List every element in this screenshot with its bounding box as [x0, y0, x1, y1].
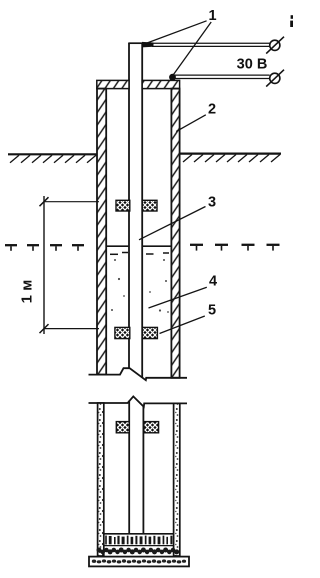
- leader line 1 to rod top: [147, 21, 207, 43]
- junction dot on casing cap: [169, 74, 176, 81]
- lower electrode block right: [142, 327, 157, 338]
- water level line inside casing: [106, 245, 171, 247]
- wire 1 (top wire to inner rod): [152, 43, 270, 46]
- water speckle dots: [111, 259, 169, 313]
- lower casing wall right (stippled): [174, 403, 180, 556]
- water level small dashes: [110, 253, 169, 255]
- inner rod pipe lower section: [129, 401, 143, 534]
- leader line 5 to lower electrode: [160, 316, 205, 334]
- upper electrode block right: [142, 200, 157, 211]
- sediment chain band: [97, 548, 180, 555]
- ground hatching left: [10, 155, 96, 163]
- leader line 2 to casing: [176, 115, 206, 132]
- svg-text:2: 2: [208, 102, 216, 118]
- lower section electrode block left: [116, 422, 129, 433]
- dimension extension line bottom: [44, 328, 99, 330]
- water table dashed line left: [5, 244, 84, 246]
- leader line 4 to water: [149, 287, 207, 308]
- bottom plate gravel chain: [92, 559, 186, 563]
- terminal circle bottom: [266, 70, 284, 87]
- casing cap right part: [142, 80, 179, 88]
- gravel filter top line: [104, 533, 174, 535]
- break line lower section top: [89, 396, 188, 406]
- gravel band bottom line: [104, 545, 173, 547]
- lower casing wall left (stippled): [98, 403, 104, 556]
- svg-text:30 В: 30 В: [237, 56, 268, 72]
- dimension arrow tick bottom: [40, 324, 49, 333]
- lower section electrode block right: [144, 422, 159, 433]
- cropped glyph at right edge: [290, 15, 293, 27]
- casing wall left (hatched): [97, 89, 106, 375]
- upper electrode block left: [116, 200, 130, 211]
- terminal circle top: [266, 37, 284, 54]
- leader line 1 to junction dot: [174, 22, 212, 75]
- dimension extension line top: [44, 201, 99, 203]
- lower electrode block left: [115, 327, 130, 338]
- dimension arrow tick top: [40, 197, 49, 206]
- svg-text:4: 4: [209, 273, 217, 289]
- casing cap left part: [97, 80, 129, 88]
- bottom plate: [89, 557, 189, 567]
- svg-text:1: 1: [208, 8, 216, 24]
- inner rod pipe upper section: [128, 43, 143, 378]
- wire 2 (lower wire to casing): [174, 75, 270, 78]
- ground hatching right: [183, 155, 280, 163]
- svg-text:3: 3: [208, 195, 216, 211]
- svg-text:5: 5: [208, 303, 216, 319]
- casing wall right (hatched): [171, 89, 179, 378]
- water table dashed line right: [190, 244, 280, 246]
- ground surface line left: [8, 153, 97, 155]
- gravel tick band: [105, 536, 172, 545]
- dimension line 1 m: [43, 196, 45, 334]
- ground surface line right: [180, 153, 281, 155]
- break line upper section bottom: [89, 368, 188, 380]
- leader line 3 to rod: [139, 207, 206, 240]
- wire 1 connection wedge at rod top: [142, 42, 154, 48]
- svg-text:1 м: 1 м: [19, 280, 36, 304]
